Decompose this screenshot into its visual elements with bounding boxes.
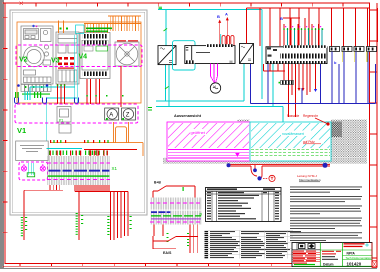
cabinet enclosure grey frame — [10, 10, 147, 215]
U3 bottom red drops — [284, 64, 316, 118]
junction dots blue — [227, 163, 231, 167]
terminal strip X1 green row — [49, 151, 108, 156]
outdoor cabinet door open (cyan) — [250, 122, 331, 161]
controller U1 — [185, 46, 235, 64]
terminal row markings — [22, 86, 50, 95]
lamp H2 — [40, 164, 45, 171]
svg-text:EA/S: EA/S — [163, 251, 172, 255]
I/O module U3 — [266, 47, 327, 64]
svg-text:Datum: Datum — [323, 262, 334, 266]
terminal row X0 under V2 — [21, 85, 51, 92]
notes text paragraphs — [290, 187, 362, 242]
outdoor feed cable (red) — [227, 165, 330, 179]
svg-text:V4: V4 — [79, 54, 88, 61]
X2 tail wires — [154, 225, 198, 254]
cable bundle under cabinet — [111, 192, 129, 241]
cyan control wiring under V3 — [30, 35, 77, 141]
red comb under X1 — [24, 185, 128, 198]
cabinet mounting panel orange outline — [17, 22, 141, 103]
svg-text:V2: V2 — [19, 57, 28, 64]
bottom-left green row — [294, 264, 315, 265]
logo marks — [296, 243, 298, 250]
converter U2 — [240, 44, 254, 64]
socket outlet symbol — [263, 177, 268, 179]
counter P3 — [122, 108, 136, 120]
cable entry marker magenta — [235, 153, 239, 157]
svg-text:P1: P1 — [59, 119, 63, 123]
svg-text:X1: X1 — [112, 166, 118, 171]
red wire loops into U1 — [222, 36, 234, 46]
cable W2 core markers — [76, 213, 84, 235]
terminal strip X2 body — [150, 198, 202, 225]
restraint box upper (dashed) — [16, 45, 142, 67]
lamp terminal green — [27, 173, 35, 177]
right section rows — [343, 255, 373, 259]
svg-text:n: n — [200, 212, 203, 217]
svg-text:geöffnet: geöffnet — [191, 130, 206, 135]
svg-text:101420: 101420 — [347, 261, 362, 266]
orange drops into V3 — [59, 21, 64, 34]
svg-text:Tech.Dokumentation: Tech.Dokumentation — [346, 256, 373, 260]
motor M1 — [210, 83, 220, 93]
cyan drops under X0 — [25, 92, 30, 101]
green markers above V3 — [60, 28, 62, 30]
wall dense section hatch — [326, 122, 342, 138]
green wire end dots — [283, 29, 323, 30]
meter terminal marks — [106, 118, 108, 120]
red riser pair top — [247, 7, 370, 9]
red collector above strip — [84, 150, 137, 156]
blue field wiring comb — [251, 52, 376, 104]
cyan supply bus top — [156, 9, 283, 122]
red distribution comb drops — [260, 8, 378, 47]
svg-text:Z: Z — [126, 113, 130, 119]
parts table 2 — [205, 230, 302, 258]
red feed U2 — [246, 8, 248, 44]
parts table 1 — [206, 188, 282, 222]
indicator lamps box dashed — [19, 162, 48, 180]
X1 green lower row — [48, 175, 110, 176]
terminal end dots blue — [17, 84, 20, 87]
V2 status LED — [32, 25, 34, 27]
yellow wire stubs — [343, 52, 367, 63]
outdoor cabinet door closed (magenta) — [167, 122, 250, 161]
revision rows red — [292, 252, 320, 262]
bundle core markers — [107, 216, 131, 235]
V4 bottom terminal row — [83, 72, 108, 77]
aux connector — [281, 81, 294, 85]
device V3 — [56, 32, 79, 84]
V4 second terminal row — [83, 41, 108, 45]
svg-text:Klemmenkasten: Klemmenkasten — [299, 178, 321, 182]
signal arrows up — [220, 20, 228, 46]
pushbutton circuit S1 — [153, 186, 195, 198]
X2 violet row — [151, 218, 201, 219]
wire labels A B blue — [217, 12, 337, 66]
wire end marks above strip — [50, 140, 105, 143]
frequency inverter V2 — [21, 26, 53, 84]
svg-text:novaMesswert: novaMesswert — [282, 132, 304, 136]
meters box dashed — [15, 104, 138, 123]
field cable W1 — [23, 190, 25, 240]
cyan label strip above V4 — [76, 25, 84, 33]
cyan link to strip — [47, 148, 82, 150]
svg-text:auf Putz: auf Putz — [303, 140, 315, 144]
svg-text:B: B — [280, 16, 283, 21]
device V4 — [80, 33, 110, 79]
relay P1 — [57, 107, 71, 134]
cable W1 core markers — [21, 217, 27, 236]
wall stipple right of cabinet box — [331, 120, 367, 158]
cable clamp U symbols — [15, 98, 79, 104]
magenta motor wires — [211, 64, 218, 84]
svg-text:M: M — [230, 60, 233, 64]
orange loop under meters — [50, 122, 143, 156]
X2 blue jumpers — [151, 211, 171, 213]
terminal blocks X10-X13 — [330, 47, 377, 52]
cyan routing loop — [173, 41, 196, 70]
svg-text:V3: V3 — [51, 58, 60, 65]
cabinet fan — [115, 42, 139, 66]
terminal strip X1 red tick row — [50, 151, 108, 156]
lamp cyan wires — [29, 163, 34, 175]
X2 green rows — [151, 215, 201, 216]
X1 blue jumper bar — [49, 170, 110, 172]
svg-text:B: B — [217, 14, 220, 19]
field cable W2 — [78, 198, 80, 240]
svg-text:Regenrohr: Regenrohr — [303, 114, 319, 118]
terminal strip X1 body — [47, 156, 110, 185]
stamp box red — [371, 243, 373, 267]
red wires V3/V4 down to meters — [58, 66, 122, 107]
svg-text:Aussenansicht: Aussenansicht — [174, 114, 202, 118]
svg-text:A: A — [225, 12, 228, 17]
switch circuit EA/S — [153, 236, 198, 249]
wall stipple band under cross-section — [163, 158, 367, 164]
green wire ticks — [148, 7, 169, 110]
green marks under X0 — [15, 92, 41, 98]
wire junction dots green — [57, 85, 124, 97]
orange wire duct comb over V4 — [84, 16, 141, 33]
V4 top terminal row — [83, 34, 108, 39]
svg-text:B+B: B+B — [154, 181, 161, 185]
hour meter P2 — [105, 108, 119, 120]
V3 red modules — [58, 57, 74, 69]
power supply G1 — [158, 46, 176, 65]
svg-text:Fassade: Fassade — [287, 114, 299, 118]
middle column rows — [322, 256, 338, 260]
svg-text:V1: V1 — [17, 126, 26, 135]
fan label red — [117, 40, 138, 41]
svg-text:A: A — [109, 113, 113, 119]
cyan stub at U1 — [220, 34, 222, 46]
title block — [292, 243, 377, 268]
control transformer box — [16, 141, 49, 161]
X2 magenta separators — [150, 203, 202, 222]
V4 inner module — [96, 46, 108, 51]
red link under U3 — [264, 64, 286, 71]
wire cluster into U3 — [284, 18, 322, 46]
lamp H1 — [21, 164, 26, 171]
X1 magenta separator lines — [47, 163, 110, 179]
